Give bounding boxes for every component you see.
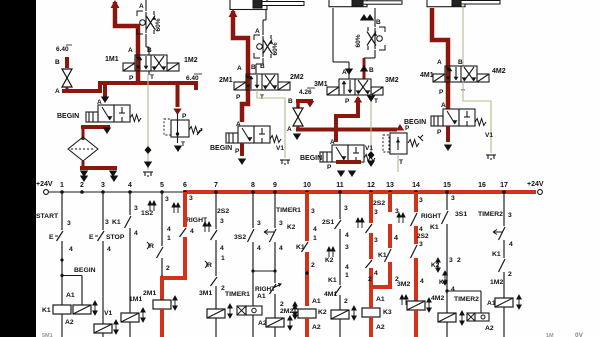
svg-text:4: 4 bbox=[257, 245, 261, 252]
svg-text:K1: K1 bbox=[42, 307, 51, 314]
svg-text:A: A bbox=[255, 28, 260, 35]
svg-text:STOP: STOP bbox=[106, 234, 125, 241]
svg-text:13: 13 bbox=[386, 182, 394, 189]
svg-text:1: 1 bbox=[167, 235, 171, 242]
svg-text:1: 1 bbox=[313, 235, 317, 242]
svg-text:4: 4 bbox=[128, 182, 132, 189]
svg-text:7: 7 bbox=[214, 182, 218, 189]
svg-text:P: P bbox=[439, 89, 444, 96]
svg-text:A: A bbox=[437, 59, 442, 66]
svg-text:A1: A1 bbox=[257, 293, 266, 300]
svg-text:T: T bbox=[374, 98, 378, 105]
svg-text:+24V: +24V bbox=[527, 181, 544, 188]
svg-text:2S1: 2S1 bbox=[322, 219, 334, 226]
svg-text:P: P bbox=[182, 113, 187, 120]
svg-text:V1: V1 bbox=[365, 145, 373, 152]
svg-text:K3: K3 bbox=[383, 309, 392, 316]
svg-text:B: B bbox=[55, 59, 60, 66]
svg-text:11: 11 bbox=[336, 182, 344, 189]
svg-text:B: B bbox=[251, 64, 256, 71]
svg-text:V1: V1 bbox=[276, 145, 284, 152]
svg-text:A1: A1 bbox=[66, 292, 75, 299]
svg-text:3: 3 bbox=[419, 241, 423, 248]
svg-text:1: 1 bbox=[221, 255, 225, 262]
svg-text:6.40: 6.40 bbox=[56, 46, 69, 53]
svg-text:4: 4 bbox=[451, 286, 455, 293]
svg-text:B: B bbox=[260, 63, 265, 70]
svg-text:V1: V1 bbox=[104, 310, 113, 317]
svg-text:K1: K1 bbox=[492, 251, 501, 258]
svg-text:3: 3 bbox=[419, 197, 423, 204]
svg-text:V1: V1 bbox=[485, 132, 493, 139]
svg-text:4: 4 bbox=[69, 246, 73, 253]
svg-text:2: 2 bbox=[166, 265, 170, 272]
svg-text:E: E bbox=[49, 234, 54, 241]
svg-text:K1: K1 bbox=[328, 277, 337, 284]
svg-text:A1: A1 bbox=[312, 298, 321, 305]
svg-text:K2: K2 bbox=[318, 309, 327, 316]
svg-text:2S2: 2S2 bbox=[373, 200, 385, 207]
svg-text:4: 4 bbox=[509, 241, 513, 248]
svg-text:3: 3 bbox=[508, 212, 512, 219]
svg-text:T: T bbox=[181, 141, 185, 148]
svg-text:K1: K1 bbox=[378, 252, 387, 259]
svg-text:3: 3 bbox=[67, 220, 71, 227]
svg-text:2: 2 bbox=[344, 298, 348, 305]
svg-text:3M1: 3M1 bbox=[199, 290, 212, 297]
svg-text:4: 4 bbox=[167, 226, 171, 233]
svg-text:14: 14 bbox=[412, 182, 420, 189]
svg-text:R: R bbox=[149, 243, 154, 250]
svg-text:2M1: 2M1 bbox=[143, 290, 156, 297]
svg-text:2M2: 2M2 bbox=[290, 74, 304, 81]
svg-text:3: 3 bbox=[449, 257, 453, 264]
svg-text:P: P bbox=[235, 148, 240, 155]
svg-text:P: P bbox=[129, 75, 134, 82]
svg-text:1M2: 1M2 bbox=[490, 279, 503, 286]
svg-text:3: 3 bbox=[311, 208, 315, 215]
svg-text:2S2: 2S2 bbox=[417, 233, 429, 240]
svg-text:A: A bbox=[128, 47, 133, 54]
svg-text:1: 1 bbox=[60, 182, 64, 189]
svg-text:3: 3 bbox=[451, 195, 455, 202]
svg-text:+24V: +24V bbox=[36, 181, 53, 188]
svg-text:2: 2 bbox=[311, 262, 315, 269]
svg-text:3M2: 3M2 bbox=[397, 281, 410, 288]
svg-text:60%: 60% bbox=[355, 34, 362, 47]
svg-text:3S1: 3S1 bbox=[455, 211, 467, 218]
svg-text:2: 2 bbox=[280, 301, 284, 308]
svg-text:3: 3 bbox=[374, 237, 378, 244]
svg-text:E: E bbox=[89, 234, 94, 241]
svg-text:3: 3 bbox=[345, 244, 349, 251]
svg-text:A: A bbox=[342, 69, 347, 76]
svg-text:3M1: 3M1 bbox=[314, 81, 328, 88]
svg-text:TIMER2: TIMER2 bbox=[478, 211, 503, 218]
svg-text:B: B bbox=[369, 67, 374, 74]
svg-text:A2: A2 bbox=[258, 320, 267, 327]
svg-text:4: 4 bbox=[345, 232, 349, 239]
svg-text:A: A bbox=[287, 126, 292, 133]
svg-text:1M: 1M bbox=[546, 333, 554, 337]
svg-text:60%: 60% bbox=[155, 18, 162, 31]
svg-text:4M2: 4M2 bbox=[492, 68, 506, 75]
svg-text:17: 17 bbox=[500, 182, 508, 189]
svg-text:3: 3 bbox=[134, 205, 138, 212]
svg-text:1M2: 1M2 bbox=[184, 57, 198, 64]
svg-text:A: A bbox=[441, 102, 446, 109]
svg-text:A2: A2 bbox=[376, 324, 385, 331]
svg-text:BEGIN: BEGIN bbox=[300, 155, 322, 162]
svg-text:4: 4 bbox=[220, 245, 224, 252]
svg-text:5: 5 bbox=[160, 182, 164, 189]
svg-text:K1: K1 bbox=[296, 244, 305, 251]
svg-text:3: 3 bbox=[101, 182, 105, 189]
svg-text:A2: A2 bbox=[312, 324, 321, 331]
svg-text:TIMER2: TIMER2 bbox=[454, 296, 479, 303]
svg-text:2: 2 bbox=[508, 271, 512, 278]
svg-text:T: T bbox=[150, 74, 154, 81]
svg-text:5M1: 5M1 bbox=[42, 333, 53, 337]
svg-text:2M2: 2M2 bbox=[280, 308, 293, 315]
svg-text:4: 4 bbox=[313, 226, 317, 233]
svg-text:3: 3 bbox=[189, 195, 193, 202]
svg-text:A1: A1 bbox=[376, 296, 385, 303]
svg-text:4: 4 bbox=[107, 246, 111, 253]
svg-text:TIMER1: TIMER1 bbox=[276, 207, 301, 214]
svg-text:3: 3 bbox=[165, 196, 169, 203]
svg-text:15: 15 bbox=[443, 182, 451, 189]
svg-text:P: P bbox=[405, 125, 410, 132]
svg-text:P: P bbox=[236, 94, 241, 101]
svg-text:0V: 0V bbox=[575, 332, 584, 337]
svg-text:1: 1 bbox=[345, 272, 349, 279]
svg-text:8: 8 bbox=[251, 182, 255, 189]
svg-text:3S2: 3S2 bbox=[234, 234, 246, 241]
svg-text:4.26: 4.26 bbox=[299, 89, 312, 96]
svg-text:1M1: 1M1 bbox=[105, 56, 119, 63]
svg-text:4: 4 bbox=[420, 278, 424, 285]
svg-text:9: 9 bbox=[273, 182, 277, 189]
svg-text:RIGHT: RIGHT bbox=[421, 213, 441, 220]
svg-text:3M2: 3M2 bbox=[385, 77, 399, 84]
svg-text:K2: K2 bbox=[325, 257, 334, 264]
svg-text:12: 12 bbox=[367, 182, 375, 189]
svg-text:3: 3 bbox=[344, 205, 348, 212]
svg-text:3: 3 bbox=[105, 219, 109, 226]
svg-text:BEGIN: BEGIN bbox=[57, 113, 79, 120]
svg-text:START: START bbox=[36, 213, 59, 220]
svg-text:BEGIN: BEGIN bbox=[74, 267, 96, 274]
svg-text:TIMER1: TIMER1 bbox=[225, 291, 250, 298]
svg-text:6.40: 6.40 bbox=[186, 75, 199, 82]
svg-text:1M1: 1M1 bbox=[129, 296, 142, 303]
svg-text:BEGIN: BEGIN bbox=[210, 145, 232, 152]
svg-text:K2: K2 bbox=[287, 224, 296, 231]
svg-text:2M1: 2M1 bbox=[219, 77, 233, 84]
svg-text:4M2: 4M2 bbox=[431, 295, 444, 302]
svg-text:2: 2 bbox=[80, 182, 84, 189]
svg-text:4: 4 bbox=[394, 233, 398, 242]
svg-text:4: 4 bbox=[374, 270, 378, 277]
svg-text:4: 4 bbox=[134, 230, 138, 237]
svg-text:A: A bbox=[55, 88, 60, 95]
svg-text:4M1: 4M1 bbox=[420, 72, 434, 79]
svg-text:P: P bbox=[437, 129, 442, 136]
svg-text:3: 3 bbox=[257, 220, 261, 227]
svg-text:4: 4 bbox=[419, 226, 423, 233]
svg-text:R: R bbox=[207, 262, 212, 269]
svg-text:K1: K1 bbox=[112, 219, 121, 226]
svg-text:BEGIN: BEGIN bbox=[404, 119, 426, 126]
svg-text:B: B bbox=[147, 47, 152, 54]
svg-text:A2: A2 bbox=[485, 325, 494, 332]
svg-text:K1: K1 bbox=[430, 224, 439, 231]
svg-text:B: B bbox=[458, 59, 463, 66]
svg-text:4: 4 bbox=[190, 228, 194, 235]
svg-text:6: 6 bbox=[183, 182, 187, 189]
svg-text:10: 10 bbox=[303, 182, 311, 189]
svg-text:1S2: 1S2 bbox=[141, 210, 153, 217]
svg-text:P: P bbox=[327, 164, 332, 171]
svg-text:A2: A2 bbox=[65, 319, 74, 326]
svg-text:2: 2 bbox=[457, 257, 461, 264]
svg-text:A: A bbox=[139, 3, 144, 10]
svg-text:4: 4 bbox=[345, 264, 349, 271]
svg-text:2S2: 2S2 bbox=[217, 208, 229, 215]
svg-text:4M1: 4M1 bbox=[324, 291, 337, 298]
svg-text:2: 2 bbox=[368, 276, 372, 283]
svg-text:16: 16 bbox=[478, 182, 486, 189]
svg-text:RIGHT: RIGHT bbox=[255, 286, 275, 293]
svg-text:3: 3 bbox=[220, 218, 224, 225]
svg-text:4: 4 bbox=[279, 245, 283, 252]
svg-text:60%: 60% bbox=[272, 42, 279, 55]
svg-text:3: 3 bbox=[279, 220, 283, 227]
svg-text:A: A bbox=[237, 65, 242, 72]
svg-text:B: B bbox=[288, 98, 293, 105]
svg-text:T: T bbox=[399, 159, 403, 166]
svg-text:P: P bbox=[345, 98, 350, 105]
svg-text:3: 3 bbox=[374, 209, 378, 216]
svg-text:B: B bbox=[376, 19, 381, 26]
